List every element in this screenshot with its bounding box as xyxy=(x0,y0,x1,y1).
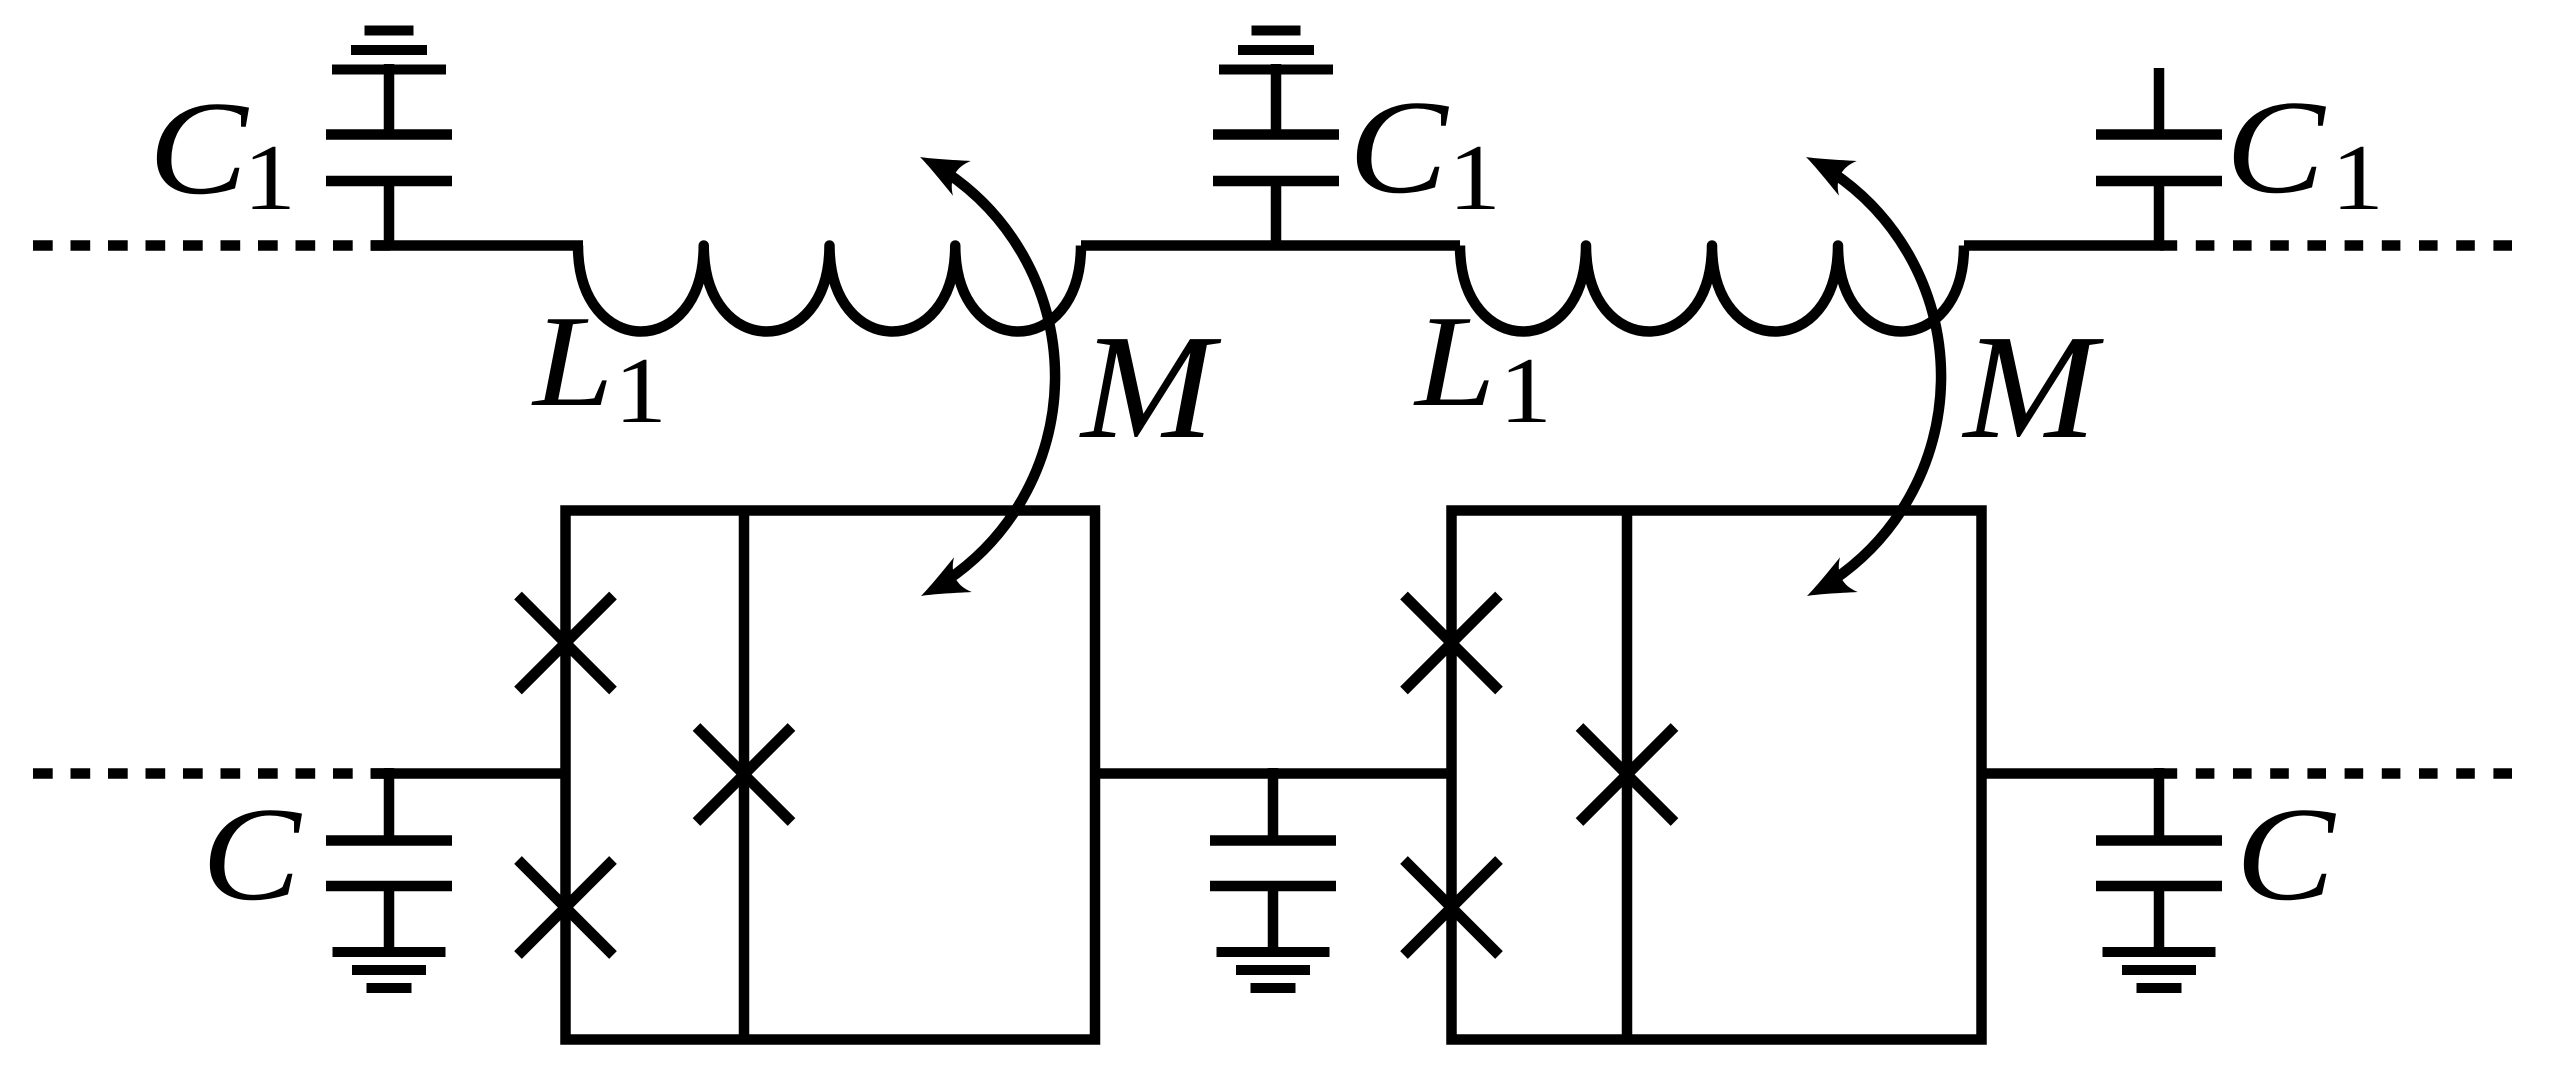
wire: bottom bus dashed segment (right edge) xyxy=(2160,768,2512,779)
Josephson junction X (box 2, middle divider) xyxy=(1580,727,1675,822)
Josephson junction X (box 2, lower left) xyxy=(1404,860,1499,955)
capacitor C (bottom left) xyxy=(326,768,452,957)
svg-text:L: L xyxy=(1413,288,1496,433)
wire: bottom bus solid segment (right) xyxy=(1982,768,2164,779)
svg-text:C: C xyxy=(2236,780,2337,929)
svg-text:M: M xyxy=(1079,305,1221,470)
svg-text:1: 1 xyxy=(614,338,667,443)
wire: top bus dashed segment (left edge) xyxy=(33,240,390,251)
svg-text:1: 1 xyxy=(1448,125,1501,230)
wire: top bus solid segment (right) xyxy=(1964,240,2164,251)
capacitor C (bottom right) xyxy=(2096,768,2222,957)
svg-text:L: L xyxy=(531,288,614,433)
ground symbol (inverted, above C1 top left) xyxy=(332,31,446,70)
capacitor C1 (top right, stub above) xyxy=(2096,68,2222,251)
svg-text:1: 1 xyxy=(1499,338,1552,443)
capacitor (bottom middle, unlabeled) xyxy=(1210,768,1336,957)
Josephson junction X (box 1, upper left) xyxy=(518,596,613,691)
ground symbol (below C bottom right) xyxy=(2103,952,2216,988)
inductor L1 (left) xyxy=(578,246,1081,332)
SQUID loop box 2 xyxy=(1452,511,1982,1040)
SQUID box 1 internal divider xyxy=(739,511,750,1040)
mutual coupling arrow M (left) xyxy=(911,140,1055,614)
wire: bottom bus solid segment to SQUID box 1 xyxy=(371,768,566,779)
inductor L1 (right) xyxy=(1460,246,1964,332)
svg-text:C: C xyxy=(202,780,303,929)
mutual coupling arrow M (right) xyxy=(1797,140,1941,614)
wire: top bus solid segment to inductor L1 (left) xyxy=(371,240,583,251)
svg-text:1: 1 xyxy=(243,125,296,230)
ground symbol (below C bottom left) xyxy=(333,952,446,988)
wire: top bus dashed segment (right edge) xyxy=(2160,240,2512,251)
svg-text:1: 1 xyxy=(2331,125,2384,230)
Josephson junction X (box 1, middle divider) xyxy=(697,727,792,822)
capacitor C1 (top middle) xyxy=(1213,64,1339,251)
svg-text:M: M xyxy=(1962,305,2104,470)
wire: bottom bus dashed segment (left edge) xyxy=(33,768,390,779)
ground symbol (below bottom middle capacitor) xyxy=(1217,952,1330,988)
Josephson junction X (box 2, upper left) xyxy=(1404,596,1499,691)
wire: top bus solid segment (middle) xyxy=(1081,240,1460,251)
svg-text:C: C xyxy=(149,74,250,223)
Josephson junction X (box 1, lower left) xyxy=(518,860,613,955)
svg-text:C: C xyxy=(2226,73,2327,222)
wire: bottom bus between box 1 and box 2 xyxy=(1095,768,1452,779)
capacitor C1 (top left) xyxy=(326,64,452,251)
svg-text:C: C xyxy=(1349,73,1450,222)
SQUID loop box 1 xyxy=(566,511,1096,1040)
ground symbol (inverted, above C1 top middle) xyxy=(1219,31,1333,70)
SQUID box 2 internal divider xyxy=(1622,511,1633,1040)
